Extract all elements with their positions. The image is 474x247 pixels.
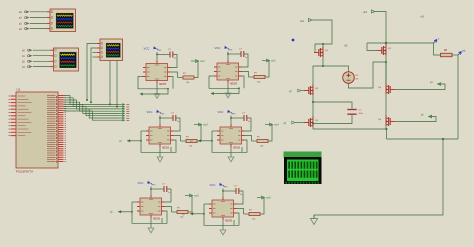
wire Q5 source to bottom rail bbox=[313, 127, 388, 139]
svg-text:10k: 10k bbox=[180, 217, 183, 219]
node marker blue dot bbox=[292, 39, 295, 42]
wire Q3 source down bbox=[312, 95, 314, 116]
svg-text:NE555: NE555 bbox=[162, 148, 170, 150]
resistor R4 bbox=[252, 137, 269, 148]
resistor R2 bbox=[249, 73, 266, 84]
capacitor C5 bbox=[162, 184, 170, 195]
terminal input U5 bbox=[110, 210, 132, 214]
wire VCC feed U2 bbox=[227, 52, 229, 61]
transistor Q4 MOSFET bbox=[378, 83, 395, 94]
wire MCU pin bundle 4 bbox=[64, 102, 120, 111]
input terminal T1 bbox=[19, 11, 29, 15]
svg-text:1n: 1n bbox=[248, 121, 250, 123]
svg-text:1n: 1n bbox=[240, 194, 242, 196]
terminal out6 bbox=[257, 196, 271, 200]
wire MCU pin bundle 1 bbox=[64, 96, 120, 105]
wire ground feed U3 bbox=[159, 147, 161, 157]
power flag VCC U4 bbox=[218, 110, 236, 116]
voltage probe P2 bbox=[458, 50, 466, 56]
transistor Q3 MOSFET bbox=[304, 84, 319, 95]
transistor Q2 MOSFET bbox=[377, 44, 392, 55]
terminal net arrow 5 bbox=[119, 112, 129, 115]
terminal input U1 bbox=[140, 93, 147, 96]
wire T7 to scope SC2 bbox=[33, 60, 51, 62]
wire output loop U4 bbox=[245, 125, 273, 142]
wire Q2 drain join bbox=[385, 62, 387, 83]
wire bottom loop U5 bbox=[131, 202, 167, 223]
wire bottom loop U1 bbox=[138, 77, 173, 96]
wire bottom loop U3 bbox=[140, 131, 176, 152]
capacitor C3 bbox=[171, 113, 179, 124]
wire R8 to probe P2 bbox=[452, 54, 458, 56]
power flag VCC U6 bbox=[210, 183, 228, 189]
ground U6 bbox=[220, 230, 226, 235]
oscilloscope SC1 bbox=[47, 9, 76, 32]
timer IC U3 NE555 bbox=[146, 124, 174, 147]
wire top rail to probe bbox=[367, 42, 434, 44]
input terminal T6 bbox=[22, 54, 32, 58]
input terminal T5 bbox=[22, 49, 32, 53]
svg-text:NE555: NE555 bbox=[153, 219, 161, 221]
terminal input U4 bbox=[190, 139, 212, 143]
label U1 bbox=[17, 88, 21, 92]
voltage probe P1 bbox=[434, 38, 441, 43]
resistor R5 bbox=[172, 208, 189, 219]
wire cap branch U5 bbox=[150, 188, 171, 202]
wire cap branch U4 bbox=[230, 117, 251, 131]
wire scope SC3 down branch 1 bbox=[109, 61, 111, 106]
svg-text:VCC: VCC bbox=[210, 183, 216, 187]
wire MCU pin bundle 8 bbox=[64, 111, 120, 120]
svg-text:out3: out3 bbox=[203, 124, 208, 127]
transistor Q6 MOSFET bbox=[378, 115, 395, 126]
power flag VCC U3 bbox=[147, 110, 165, 116]
wire bottom loop U4 bbox=[211, 131, 247, 152]
svg-text:1n: 1n bbox=[177, 121, 179, 123]
timer IC U6 NE555 bbox=[209, 197, 237, 220]
power flag VCC U5 bbox=[138, 181, 156, 187]
ground U3 bbox=[157, 157, 163, 162]
svg-text:NE555: NE555 bbox=[159, 84, 167, 86]
wire battery to right rail bbox=[349, 61, 388, 88]
svg-text:100n: 100n bbox=[359, 113, 363, 115]
wire output loop U5 bbox=[165, 196, 193, 213]
timer IC U4 NE555 bbox=[217, 124, 245, 147]
wire ground drop bbox=[314, 139, 443, 218]
svg-text:VCC: VCC bbox=[144, 46, 150, 50]
resistor R3 bbox=[181, 137, 198, 148]
wire T3 to scope SC1 bbox=[30, 22, 47, 24]
wire cap branch U3 bbox=[159, 117, 180, 131]
svg-text:+12: +12 bbox=[300, 19, 305, 23]
wire T8 to scope SC2 bbox=[33, 66, 51, 68]
label NE555 U1 bbox=[159, 84, 167, 86]
ground U5 bbox=[148, 228, 154, 233]
svg-text:NE555: NE555 bbox=[233, 148, 241, 150]
wire VCC feed U3 bbox=[159, 116, 161, 125]
label net 88 bbox=[420, 17, 425, 19]
input terminal T8 bbox=[22, 65, 32, 69]
svg-text:10k: 10k bbox=[260, 146, 263, 148]
terminal Q3 gate bbox=[289, 89, 305, 93]
wire ground feed U2 bbox=[227, 83, 229, 93]
label NE555 U5 bbox=[153, 219, 161, 221]
capacitor C7 bbox=[347, 110, 363, 116]
power flag +12V B bbox=[363, 10, 378, 14]
label NE555 U6 bbox=[225, 221, 233, 223]
wire Q6 source down bbox=[385, 126, 387, 129]
input terminal T7 bbox=[22, 60, 32, 64]
label NE555 U4 bbox=[233, 148, 241, 150]
wire output loop U6 bbox=[237, 198, 265, 215]
terminal Q6 gate bbox=[421, 115, 432, 118]
wire probe to R8 bbox=[434, 43, 441, 55]
svg-text:1n: 1n bbox=[168, 192, 170, 194]
svg-text:10k: 10k bbox=[257, 82, 260, 84]
oscilloscope SC2 bbox=[50, 48, 78, 71]
svg-text:1n: 1n bbox=[245, 57, 247, 59]
terminal out3 bbox=[194, 123, 208, 127]
wire left rail upper bbox=[313, 66, 323, 84]
wire snubber bottom bbox=[312, 115, 352, 125]
label NE555 U3 bbox=[162, 148, 170, 150]
wire output loop U2 bbox=[242, 61, 270, 78]
label HB bbox=[344, 45, 348, 48]
svg-text:out1: out1 bbox=[200, 60, 205, 63]
wire T2 to scope SC1 bbox=[30, 17, 47, 19]
terminal net arrow 6 bbox=[119, 114, 129, 117]
transistor Q1 MOSFET bbox=[314, 46, 329, 57]
svg-text:out6: out6 bbox=[266, 197, 271, 200]
svg-text:NE555: NE555 bbox=[225, 221, 233, 223]
label PIC16F877A bbox=[16, 170, 33, 174]
terminal Q5 gate bbox=[284, 121, 305, 125]
oscilloscope SC3 bbox=[97, 39, 123, 61]
wire MCU pin bundle 3 bbox=[64, 100, 120, 109]
wire VCC feed U6 bbox=[222, 189, 224, 198]
wire T6 to scope SC2 bbox=[33, 55, 51, 57]
terminal input U3 bbox=[119, 139, 141, 143]
wire VCC feed U4 bbox=[230, 116, 232, 125]
wire +12V B down bbox=[378, 12, 387, 44]
resistor R6 bbox=[244, 210, 261, 221]
ground U2 bbox=[225, 93, 231, 98]
timer IC U1 NE555 bbox=[143, 61, 171, 84]
svg-text:out: out bbox=[462, 50, 466, 53]
wire scope SC3 ch C stub bbox=[93, 52, 97, 54]
capacitor C4 bbox=[242, 113, 250, 124]
svg-text:VCC: VCC bbox=[218, 110, 224, 114]
label NE555 U2 bbox=[230, 84, 238, 86]
terminal net arrow 8 bbox=[119, 119, 129, 122]
ground U1 bbox=[154, 94, 160, 99]
wire Q6 gate loop bbox=[395, 117, 436, 122]
resistor R8 bbox=[441, 50, 453, 57]
svg-text:out5: out5 bbox=[194, 195, 199, 198]
power flag +12V A bbox=[300, 18, 315, 22]
wire bundle to scope SC3 ch A bbox=[86, 44, 97, 102]
terminal out2 bbox=[262, 59, 276, 63]
terminal net arrow 4 bbox=[119, 110, 129, 113]
wire MCU pin bundle 6 bbox=[64, 107, 120, 116]
timer IC U5 NE555 bbox=[137, 195, 165, 218]
wire cap branch U6 bbox=[222, 190, 243, 204]
terminal out5 bbox=[185, 194, 199, 198]
terminal input U6 bbox=[182, 212, 204, 216]
wire Q4 source down bbox=[385, 94, 387, 115]
wire Q4 gate loop bbox=[395, 84, 445, 90]
svg-text:VCC: VCC bbox=[147, 110, 153, 114]
wire Q2 source down bbox=[385, 55, 387, 83]
resistor R1 bbox=[178, 73, 195, 84]
svg-text:10k: 10k bbox=[252, 219, 255, 221]
ground GND1 bbox=[310, 215, 317, 225]
microcontroller U1 PIC16F877A bbox=[9, 92, 67, 168]
wire MCU pin bundle 5 bbox=[64, 104, 120, 113]
terminal out1 bbox=[191, 60, 205, 64]
svg-text:1n: 1n bbox=[174, 58, 176, 60]
wire Q1 source to battery bbox=[322, 58, 349, 72]
wire MCU pin bundle 2 bbox=[64, 98, 120, 107]
LCD display LCD1 bbox=[284, 152, 322, 185]
svg-text:out4: out4 bbox=[274, 124, 279, 127]
wire Q2 gate tie bbox=[367, 43, 377, 51]
battery BT1 bbox=[343, 72, 359, 84]
wire bottom loop U6 bbox=[203, 204, 239, 225]
wire ground feed U6 bbox=[222, 220, 224, 230]
timer IC U2 NE555 bbox=[214, 60, 242, 83]
input terminal T4 bbox=[19, 27, 29, 31]
terminal net arrow 2 bbox=[119, 105, 129, 108]
ground U4 bbox=[228, 157, 234, 162]
capacitor C1 bbox=[168, 49, 176, 60]
svg-text:U1: U1 bbox=[17, 88, 21, 92]
wire snubber top bbox=[312, 101, 352, 109]
wire scope SC3 ch D stub bbox=[93, 56, 97, 58]
terminal Q4 gate bbox=[430, 82, 441, 85]
terminal net arrow 1 bbox=[119, 103, 129, 106]
power flag VCC U2 bbox=[215, 46, 233, 52]
wire cap branch U2 bbox=[227, 53, 248, 67]
capacitor C2 bbox=[239, 49, 247, 60]
terminal net arrow 7 bbox=[119, 117, 129, 120]
terminal net arrow 3 bbox=[119, 108, 129, 111]
svg-text:HB: HB bbox=[344, 45, 348, 48]
svg-text:VCC: VCC bbox=[215, 46, 221, 50]
svg-text:10k: 10k bbox=[189, 146, 192, 148]
wire ground feed U4 bbox=[230, 147, 232, 157]
svg-text:PIC16F877A: PIC16F877A bbox=[16, 170, 33, 174]
wire cap branch U1 bbox=[156, 54, 177, 68]
svg-text:VCC: VCC bbox=[138, 181, 144, 185]
wire MCU pin bundle 7 bbox=[64, 109, 120, 118]
input terminal T2 bbox=[19, 16, 29, 20]
wire +12V A to Q1 bbox=[315, 20, 333, 53]
transistor Q5 MOSFET bbox=[304, 116, 319, 127]
wire VCC feed U5 bbox=[150, 187, 152, 196]
wire T1 to scope SC1 bbox=[30, 11, 47, 13]
wire bottom return bbox=[387, 138, 459, 140]
wire ground feed U1 bbox=[156, 84, 158, 94]
wire output loop U3 bbox=[174, 125, 202, 142]
wire bundle to scope SC3 ch B bbox=[90, 48, 97, 103]
wire ground feed U5 bbox=[150, 218, 152, 228]
power flag VCC U1 bbox=[144, 46, 162, 52]
svg-text:NE555: NE555 bbox=[230, 84, 238, 86]
svg-text:out2: out2 bbox=[271, 60, 276, 63]
svg-text:+12: +12 bbox=[363, 10, 368, 14]
svg-text:10k: 10k bbox=[186, 82, 189, 84]
wire T5 to scope SC2 bbox=[33, 49, 51, 51]
input terminal T3 bbox=[19, 22, 29, 26]
wire VCC feed U1 bbox=[156, 52, 158, 61]
terminal input U2 bbox=[211, 92, 218, 95]
wire R8 return down bbox=[457, 55, 459, 139]
terminal out4 bbox=[265, 123, 279, 127]
wire scope SC3 down branch 2 bbox=[116, 61, 118, 108]
wire bottom loop U2 bbox=[209, 76, 244, 95]
wire T4 to scope SC1 bbox=[30, 28, 47, 30]
wire output loop U1 bbox=[171, 61, 199, 78]
capacitor C6 bbox=[234, 186, 242, 197]
